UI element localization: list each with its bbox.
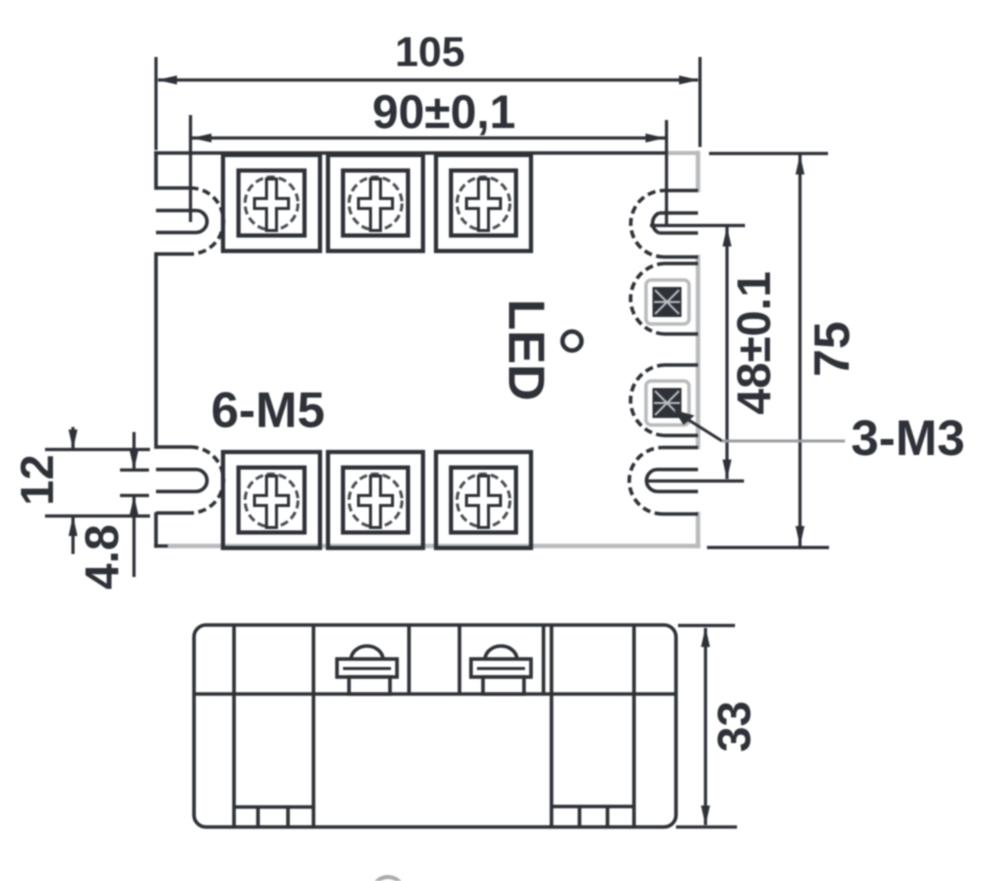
dimension 12: [45, 427, 150, 554]
dimension 90±0,1: [191, 115, 667, 224]
dimension 48±0.1: [648, 226, 745, 482]
svg-text:33: 33: [708, 701, 760, 752]
dimension 75: [707, 154, 829, 548]
svg-text:3-M3: 3-M3: [851, 410, 965, 466]
dimension 33: [676, 626, 737, 828]
vertical partitions full height: [232, 625, 236, 827]
LED indicator: [563, 332, 582, 351]
M3 screw terminal upper: [631, 264, 698, 335]
vertical partitions top band: [407, 625, 411, 694]
mounting slot top-left: [156, 188, 224, 254]
svg-text:LED: LED: [498, 299, 555, 401]
svg-text:48±0.1: 48±0.1: [727, 271, 780, 414]
M5 terminal 5 bottom: [328, 452, 423, 548]
svg-text:75: 75: [804, 321, 860, 377]
svg-text:6-M5: 6-M5: [211, 382, 325, 438]
M5 terminal 4 bottom: [223, 452, 320, 548]
partial circle bottom decoration: [372, 877, 404, 881]
side terminal screw 2: [471, 646, 531, 694]
dimension 105: [156, 57, 700, 150]
svg-text:4.8: 4.8: [75, 524, 128, 589]
side view outline: [194, 625, 676, 827]
body outline top view: [156, 153, 698, 546]
mounting slot top-right: [631, 191, 698, 258]
horizontal divider: [194, 692, 676, 696]
M5 terminal 1 top: [223, 155, 320, 251]
side terminal screw 1: [337, 646, 397, 694]
svg-text:105: 105: [395, 28, 465, 75]
M5 terminal 3 top: [436, 155, 531, 251]
M5 terminal 2 top: [328, 155, 423, 251]
label 3-M3 with leader: [676, 412, 722, 441]
M3 screw terminal lower: [631, 365, 698, 436]
svg-text:12: 12: [11, 454, 63, 505]
mounting slot bottom-left: [156, 447, 224, 513]
dimension 4.8: [120, 432, 149, 577]
mounting slot bottom-right: [629, 448, 698, 515]
svg-text:90±0,1: 90±0,1: [372, 85, 515, 138]
foot left: [234, 807, 314, 827]
M5 terminal 6 bottom: [436, 452, 531, 548]
foot right: [552, 807, 635, 828]
